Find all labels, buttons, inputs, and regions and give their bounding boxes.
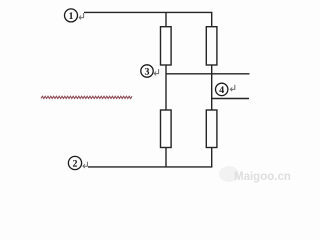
wire: top line from node 1 to right column with corner down: [84, 12, 212, 26]
wire: right column from R2 bottom through middle line and tap down to R4 top: [211, 65, 213, 110]
wire: bottom stub right column: [211, 148, 213, 167]
wire: bottom line from node 2 to right column: [88, 166, 212, 168]
return mark after node 2: [83, 162, 87, 168]
red squiggly underline: [41, 96, 132, 98]
wire: top stub left column: [165, 12, 167, 26]
return mark after node 3: [154, 69, 158, 75]
resistor R3 (bottom-left): [161, 110, 172, 148]
resistor R4 (bottom-right): [206, 110, 217, 148]
watermark logo blob: [219, 166, 239, 182]
node 1 label (circled digit): [65, 9, 78, 22]
return mark after node 1: [79, 13, 83, 19]
node 2 label (circled digit): [68, 156, 81, 169]
resistor R1 (top-left): [161, 27, 172, 65]
node 3 label (circled digit): [141, 65, 153, 77]
wire: bottom stub left column: [165, 148, 167, 167]
wire: tap line of node 4: [212, 98, 249, 100]
wire: left column from R1 bottom through node 3 line down to R3 top: [165, 65, 167, 110]
resistor R2 (top-right): [206, 27, 217, 65]
return mark after node 4: [230, 85, 234, 91]
node 4 label (circled digit): [216, 83, 228, 95]
wire: middle horizontal line (node 3 net): [166, 73, 250, 75]
svg-text:Maigoo.cn: Maigoo.cn: [234, 171, 291, 183]
